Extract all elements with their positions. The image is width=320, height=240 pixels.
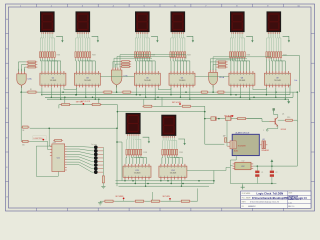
power arrow osc [271,159,274,166]
wire osc left pin [230,164,232,166]
wire U14 to osc [187,167,231,170]
7-segment display 7SEG2 (hours units) [76,11,91,34]
7-segment display 7SEG1 (hours tens) [40,11,55,34]
resistor stack R2-R4 [26,61,37,68]
wire setmin row [59,104,118,106]
wire junction dots [20,91,298,100]
svg-text:Logic Clock_7x5.DSN: Logic Clock_7x5.DSN [257,191,284,195]
svg-text:U11: U11 [57,157,60,159]
svg-text:74LS48: 74LS48 [84,80,91,82]
wire bundle RN7 to U13 [126,156,147,164]
ground terminal Q1 [263,129,268,132]
IC U13 74LS48 [123,164,151,180]
capacitor C1 [255,166,263,183]
wire setmin left [58,105,60,109]
resistor R21 [103,200,114,202]
svg-text:PAGE 1-Lo: PAGE 1-Lo [288,198,299,201]
svg-text:D:\Users\Gerardo\Desktop\PROTE: D:\Users\Gerardo\Desktop\PROTEUS\Logic C… [252,197,307,200]
wire bundle display 2 to RN2 [76,33,90,52]
wire alarm trigger [205,118,262,120]
resistor R27 [53,139,63,141]
junction bl2 [116,141,118,143]
svg-text:9/09/2013: 9/09/2013 [288,196,299,198]
capacitor C2 [270,166,278,183]
resistor R7 [102,91,113,93]
wire long right drop [296,92,298,122]
wire y111.6 [117,111,204,113]
wire bottom left vertical [116,128,118,186]
wire bottom right vertical [213,171,215,184]
wire sethour drop2 [161,97,163,106]
wire drop to setmin row [64,97,66,103]
wire feed left S1 [18,62,26,72]
svg-text:G: G [6,197,8,199]
wire LED common [102,147,104,176]
AND gate U7:A [111,68,122,88]
svg-text:SET HRS: SET HRS [163,196,171,198]
LED column D1-D8 [67,145,104,174]
svg-text:RX8: RX8 [92,55,96,57]
resistor network RN3 [134,52,150,59]
wire right long drop2 [296,120,298,166]
IC U5 74LS48 decoder [134,71,160,87]
wire bundle display 1 to RN1 [40,33,54,52]
wire bundle display 4 to RN4 [171,33,185,52]
IC U3 74LS48 decoder [74,71,100,87]
wire toggle2 drop [169,200,171,202]
wire bundle 7SEG8 to RN8 [163,138,177,150]
wire sethour row [153,105,181,107]
diode D10 [226,117,231,121]
bus wire net2 y94.7 [43,94,290,96]
7-segment display 7SEG5 (seconds tens) [230,11,245,34]
bus wire net4 y99.2 [47,98,289,100]
junction osc2 [271,165,273,167]
wire U11 bottom loop [36,146,58,176]
svg-text:U12: U12 [242,160,245,162]
carry wire group1-2 [100,76,134,78]
wire alarm feed [205,143,225,145]
resistor network RN8 [162,149,178,156]
junction bl1 [116,127,118,129]
wire bundle display 3 to RN3 [135,33,149,52]
wire bundle RN8 to U14 [162,156,183,164]
resistor stack R14-R16 [216,61,227,68]
toggle dot min [83,103,85,105]
power arrow display8 [178,139,186,145]
wire setmin vertical [116,105,118,129]
resistor network RN7 [126,149,142,156]
svg-text:330: 330 [22,144,25,146]
wire drop to setmin row2 [98,99,100,103]
power arrow for display 1 [56,36,64,42]
carry wire [158,88,171,90]
svg-text:RX8: RX8 [57,55,61,57]
wire bottom vert2 [197,188,199,201]
svg-text:SET MINS: SET MINS [115,196,124,198]
wire U7:A output [116,85,118,92]
svg-text:SET MIN: SET MIN [76,102,84,104]
label LOGICTOGGLE [33,136,47,140]
svg-text:RX8: RX8 [179,152,183,154]
wire bottom vert1 [151,192,153,200]
wires to U10:A inputs [210,69,216,70]
svg-text:1 of 1: 1 of 1 [288,202,292,204]
capacitor C4 [224,138,226,142]
svg-text:LS1: LS1 [262,139,265,141]
svg-text:RX8: RX8 [187,55,191,57]
AND gate U4:A [17,71,26,87]
IC U1 oscillator [233,162,254,169]
svg-text:REV: 1.0: REV: 1.0 [288,206,294,208]
wire toggle1 drop [123,199,125,201]
resistor R12 [142,105,153,107]
wire sethour right [192,106,205,144]
resistor network RN5 [229,52,245,59]
resistor network RN2 [75,52,91,59]
resistor network RN1 [39,52,55,59]
resistor R23 [150,200,161,202]
junction alarm [218,118,220,120]
7-segment display 7SEG4 (minutes units) [171,11,186,34]
bus wire bottom1 [116,180,214,182]
toggle dot2 [169,198,171,200]
ground bottom row [98,201,102,205]
svg-text:1Hz: 1Hz [294,80,297,82]
resistor R24 [180,200,191,202]
wire feed left S2 [113,62,120,68]
title block text [242,191,307,207]
wire buzzer bottom [230,156,236,160]
power arrow for display 5 [246,36,254,42]
wire Q1 emitter [267,126,278,130]
svg-text:C2: C2 [275,172,277,174]
IC U14 74LS48 [159,164,187,180]
svg-text:U12: U12 [241,166,244,168]
IC U8 74LS48 decoder [229,71,255,87]
wire y128.2 [30,127,118,129]
7-segment display 7SEG8 [161,115,176,138]
bus wire bottom3 [119,185,210,187]
junction osc right [271,183,272,184]
resistor R22 [134,200,145,202]
power arrow for display 3 [151,36,159,42]
transistor Q1 [270,117,279,126]
ground LED [101,186,105,188]
svg-text:R20: R20 [287,117,290,119]
title block lines [241,191,311,208]
resistor R25 [21,126,30,128]
wire feed U7 inputs [114,55,186,68]
resistor R18 [216,91,225,93]
svg-text:1: 1 [263,130,264,132]
svg-text:RX8: RX8 [143,152,147,154]
svg-text:74LS48: 74LS48 [50,80,57,82]
bottom IC drops [124,180,182,187]
svg-text:LOGICTOG: LOGICTOG [34,138,44,140]
svg-text:SOUNDER: SOUNDER [238,146,247,148]
wire right drop1 [289,85,291,95]
resistor network RN4 [170,52,186,59]
power pin Q1 [273,108,275,112]
power arrow for display 6 [283,36,291,42]
title block right text [288,191,299,208]
carry wire [253,88,267,90]
wire R20 to drop [294,120,298,121]
wire y141 to IC [30,141,50,149]
resistor R20 [284,119,294,121]
svg-text:74LS48: 74LS48 [179,80,186,82]
bus wire bottom2 [116,183,214,185]
resistor R28 vertical [102,176,104,187]
wire bundle RN6 to IC [266,59,285,71]
junction setmin [117,111,119,113]
AND gate U10:A [209,70,218,87]
svg-text:74LS48: 74LS48 [134,173,141,175]
carry wire [64,88,77,90]
wire to Q1 base [247,119,269,122]
svg-text:4060: 4060 [53,142,57,144]
wire left vertical x21 [20,92,22,141]
junction y128 [48,127,50,129]
wire bottom left vertical2 [117,142,122,181]
junction dots bottom [132,180,214,184]
buzzer BUZ1 [227,141,246,153]
svg-text:C1: C1 [261,172,263,174]
resistor R5 [60,104,71,106]
inner border frame [9,7,312,208]
wire bundle RN5 to IC [230,59,250,71]
wire bundle RN1 to IC [40,59,61,71]
wire bundle display 6 to RN6 [267,33,281,52]
wire bundle RN3 to IC [135,59,155,71]
wires to U4:A inputs [18,69,24,72]
toggle dot hour [179,103,181,105]
wire osc bus drop [296,121,298,166]
bus wire net1 y92.1 [21,91,297,93]
diode D9 [211,117,216,121]
svg-text:RX8: RX8 [247,55,251,57]
IC U11 4060 [50,144,67,172]
resistor R1 [26,91,37,93]
IC output drops to buses [41,88,286,100]
wire bottom row [100,200,197,202]
resistor R17 [200,91,209,93]
wire sethour drop1 [143,99,145,105]
ground cross osc [241,185,245,189]
resistor R11 [121,91,132,93]
wire osc bottom [230,160,276,184]
IC U6 74LS48 decoder [169,71,195,87]
7-segment display 7SEG6 (seconds units) [267,11,282,34]
junction alarm v [204,111,206,113]
wire R20 left [278,119,284,121]
resistor stack R8-R10 [120,61,131,68]
svg-text:74LS48: 74LS48 [144,80,151,82]
resistor R26 [21,140,30,142]
speaker LS1 [260,141,268,149]
resistor R19 [236,118,247,120]
svg-text:74LS48: 74LS48 [170,173,177,175]
wire feed left S3 [210,62,216,70]
wire buzzer left [226,120,228,146]
wire osc gnd [242,184,244,186]
power arrow for display 4 [187,36,195,42]
ground arrow bus4 [287,99,290,104]
svg-text:Q1: Q1 [282,114,284,116]
junction osc1 [257,165,259,167]
toggle dot3 [42,139,44,141]
resistor network RN6 [266,52,282,59]
wires to U7:A inputs [113,67,120,70]
wire bundle display 5 to RN5 [230,33,244,52]
IC U2 74LS48 decoder [40,71,66,87]
alarm toggle dot [231,115,233,117]
power arrow for display 2 [92,36,100,42]
svg-text:74LS48: 74LS48 [239,80,246,82]
carry wire group2-3 [195,76,229,78]
7-segment display 7SEG7 [126,113,141,136]
title block frame [241,191,311,208]
wire bundle RN2 to IC [76,59,96,71]
toggle dot1 [123,198,125,200]
resistor R6 [91,104,102,106]
wire bundle RN4 to IC [171,59,190,71]
7-segment display 7SEG3 (minutes tens) [135,11,150,34]
svg-text:74LS48: 74LS48 [274,80,281,82]
svg-text:BUZ1: BUZ1 [234,151,238,153]
resistor R13 [181,105,192,107]
wire U4:A output [21,86,23,92]
junction alarm t [204,118,206,120]
wire seconds feedback [282,56,300,93]
wire y128 to IC [49,128,52,146]
bus wire net3 y97.3 [45,96,293,98]
svg-text:R1: R1 [30,89,32,91]
svg-text:1uF: 1uF [223,135,226,137]
IC U9 74LS48 decoder [264,71,290,87]
wire osc bus [253,165,297,167]
wire right drop2 [292,92,294,97]
wire bundle 7SEG7 to RN7 [127,136,141,149]
wire Q1 collector [274,111,278,118]
wire U10:A output [212,85,214,92]
wire feed U10 inputs [210,57,271,70]
svg-text:BC548: BC548 [281,129,286,131]
power arrow display7 [143,137,151,143]
alarm circuit box [232,134,259,155]
